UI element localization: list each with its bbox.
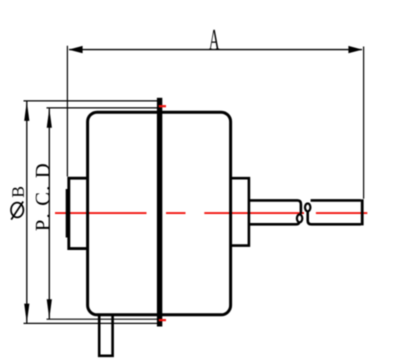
left hub spigot step xyxy=(66,189,68,238)
terminal tab xyxy=(99,315,112,356)
arrowhead A left xyxy=(69,46,83,53)
shaft segment 2 right end xyxy=(361,199,364,225)
centerline (red) segment 4 xyxy=(316,212,367,214)
shaft segment 2 fill xyxy=(308,200,363,224)
extension line phi-B bottom xyxy=(24,322,158,324)
dimension line A xyxy=(69,49,362,51)
extension line PCD top xyxy=(47,107,158,109)
left hub outline xyxy=(69,178,88,248)
shaft segment 2 left+bottom edge xyxy=(308,211,361,224)
label P. C. D xyxy=(36,164,50,230)
centerline (red) segment 3 xyxy=(204,212,304,214)
centerline (red) segment 2 xyxy=(166,212,186,214)
extension line A right xyxy=(363,47,365,199)
motor body fill xyxy=(88,112,231,315)
flange hole center mark bottom (red) xyxy=(159,319,166,321)
shaft segment 1 bottom edge xyxy=(249,222,299,225)
flange hole center mark top (red) xyxy=(159,105,166,107)
diameter symbol circle xyxy=(11,203,23,218)
arrowhead phi-B bottom xyxy=(24,304,29,324)
shaft segment 1 top edge xyxy=(249,200,301,213)
motor body outline xyxy=(88,112,231,315)
centerline (red) segment 1 xyxy=(55,212,147,214)
extension line phi-B top xyxy=(24,100,158,102)
shaft break loop 1 xyxy=(297,215,302,223)
shaft break loop 2 xyxy=(305,204,310,212)
arrowhead PCD bottom xyxy=(47,299,52,319)
arrowhead phi-B top xyxy=(24,101,29,121)
dimension line PCD xyxy=(48,108,50,319)
diameter symbol slash xyxy=(11,202,23,220)
arrowhead A right xyxy=(348,46,362,53)
label B of diameter-B xyxy=(12,187,24,197)
left hub fill xyxy=(69,179,88,250)
dimension line phi-B xyxy=(26,101,28,323)
label A xyxy=(209,30,220,50)
right hub fill xyxy=(231,178,249,245)
right hub outline xyxy=(231,178,249,245)
extension line A left xyxy=(66,46,68,177)
mounting flange (edge view) xyxy=(157,98,162,327)
extension line PCD bottom xyxy=(47,318,158,320)
arrowhead PCD top xyxy=(47,108,52,128)
shaft segment 2 top edge xyxy=(311,199,361,202)
shaft segment 1 fill xyxy=(249,200,301,224)
